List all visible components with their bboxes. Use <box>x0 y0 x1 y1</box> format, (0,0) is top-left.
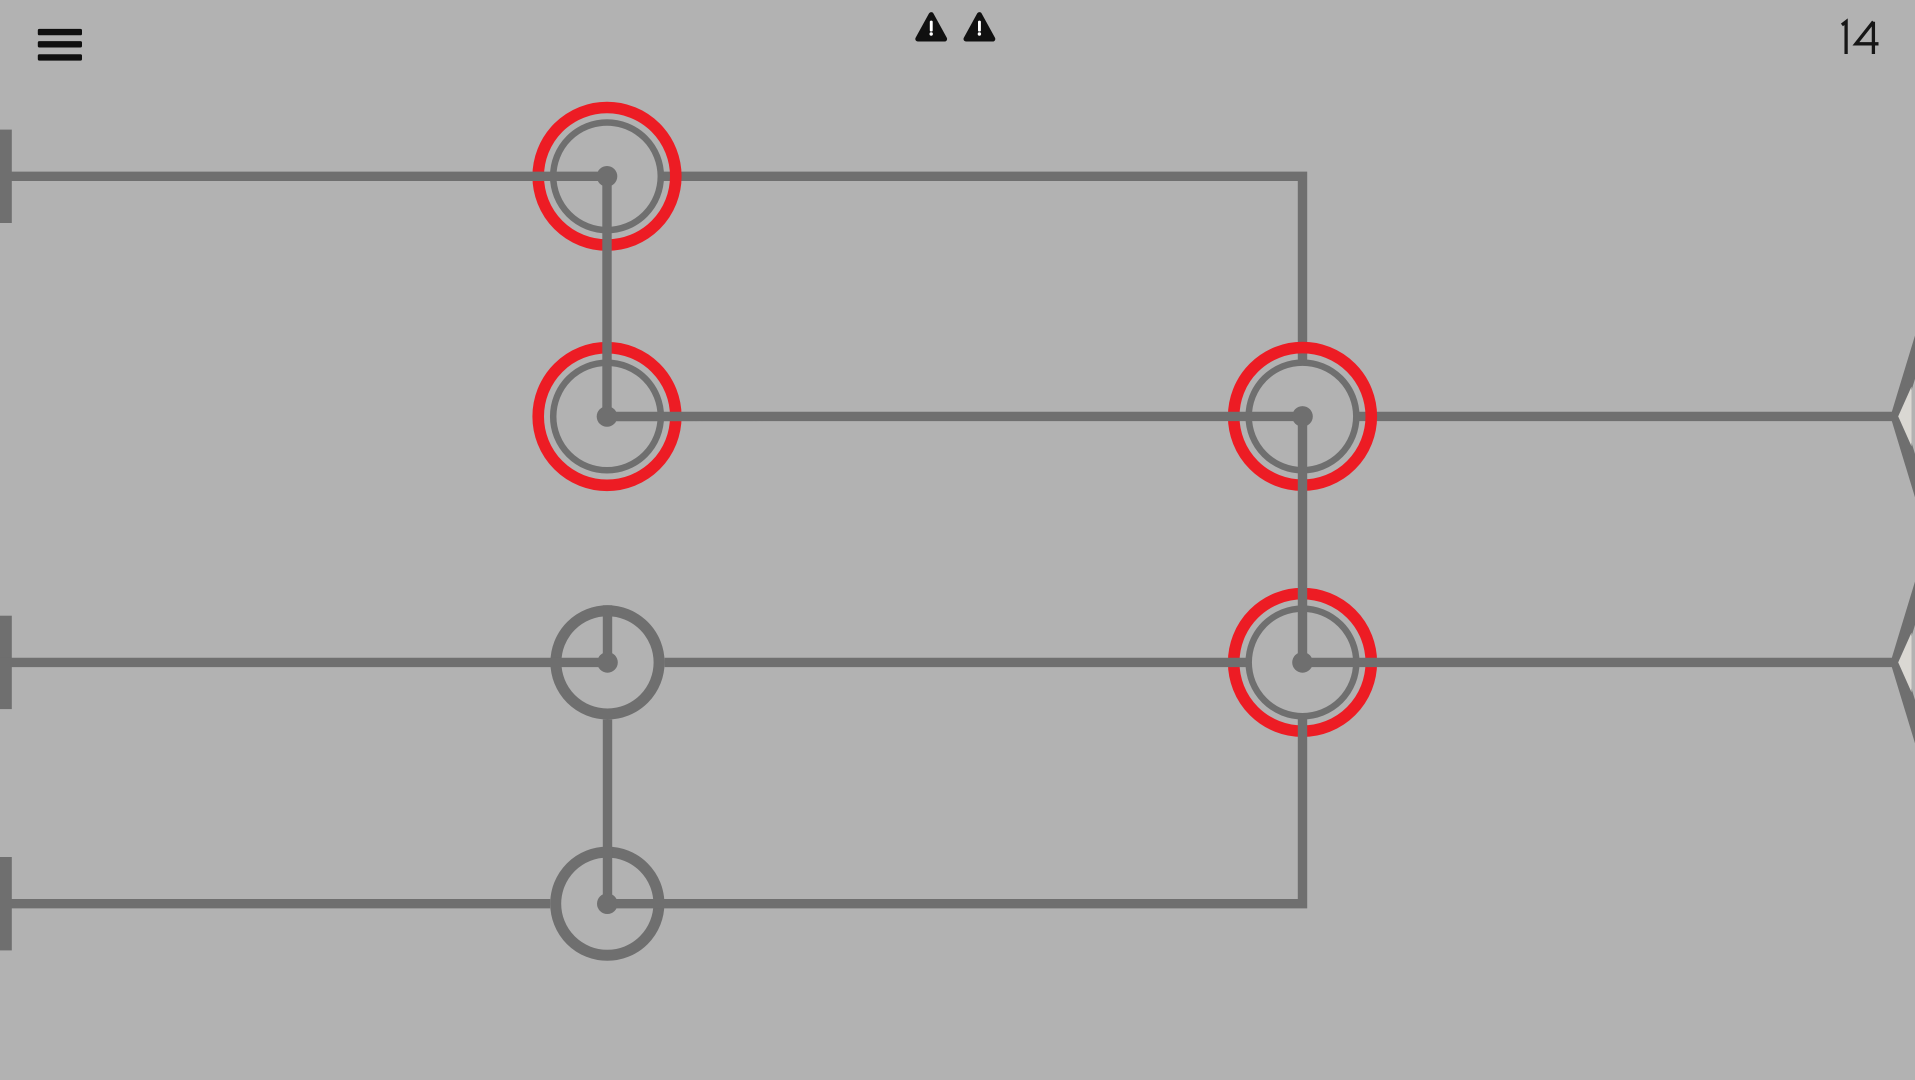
wire D stub up <box>603 605 612 662</box>
node F dot <box>597 893 618 914</box>
wire row1-left: edge cap to node A <box>0 172 607 181</box>
wire row2-mid: B to C <box>607 412 1303 422</box>
wire C down to E <box>1298 416 1307 662</box>
wire A down to B <box>602 176 611 416</box>
node E red ring <box>1234 594 1372 732</box>
wire row2-right under red: from node C ring to goal row2 <box>1359 412 1893 421</box>
node C gray ring <box>1249 363 1357 471</box>
left terminal row3 <box>0 616 12 709</box>
level number 14 <box>1842 22 1879 54</box>
wire D ring down to F <box>603 720 612 904</box>
wire row1-right under red: from node A ring to corner, down to node C ring <box>663 176 1303 360</box>
wire row4-right: F to corner, up to E ring <box>607 718 1302 903</box>
goal chevron row3 <box>1897 583 1915 741</box>
menu icon (hamburger) <box>38 29 82 61</box>
wire row3-mid: D ring to E ring <box>665 658 1247 667</box>
node E gray ring <box>1249 609 1357 717</box>
left terminal row4 <box>0 857 12 950</box>
warning icon 1 <box>918 15 945 39</box>
node E dot <box>1292 652 1313 673</box>
wire row3-right: E to goal row3 <box>1303 658 1893 667</box>
node A red ring <box>538 108 676 246</box>
node B dot <box>597 406 618 427</box>
wire row4-left: edge cap to F ring <box>0 899 550 908</box>
node B gray ring <box>553 363 661 471</box>
node A gray ring <box>553 123 661 231</box>
goal chevron row2 <box>1897 337 1915 495</box>
node F gray ring <box>556 852 659 955</box>
node B red ring <box>538 348 676 486</box>
node D dot <box>597 652 618 673</box>
warning icon 2 <box>966 15 993 39</box>
left terminal row1 <box>0 130 12 223</box>
wire row3-left: edge cap to node D <box>0 658 608 667</box>
node C dot <box>1292 406 1313 427</box>
node D gray ring <box>556 611 659 714</box>
node A dot <box>597 166 618 187</box>
node C red ring <box>1234 348 1372 486</box>
